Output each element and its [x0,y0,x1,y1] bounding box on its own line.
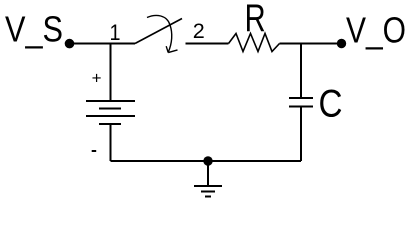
wire switch terminal 2 to resistor [186,43,229,45]
battery plate long top [86,100,135,102]
ground junction dot [203,156,212,165]
svg-text:2: 2 [193,20,205,43]
wire capacitor to bottom rail [300,107,302,162]
battery plate long [86,115,135,117]
ground bar middle [201,191,215,193]
svg-text:1: 1 [110,20,121,45]
capacitor C bottom plate [289,106,313,108]
resistor R zigzag [229,34,280,52]
svg-text:C: C [319,82,343,125]
wire from V_S node to switch pivot [69,43,136,45]
node V_S dot [65,39,75,49]
svg-text:V_S: V_S [5,9,63,50]
wire battery to bottom rail [110,124,112,161]
node V_O dot [337,39,346,48]
svg-text:R: R [245,0,266,40]
ground stem wire [207,161,209,186]
svg-text:V_O: V_O [346,10,406,51]
battery plate short [99,108,121,110]
ground bar long [194,185,222,187]
wire output node down to capacitor [300,44,302,99]
ground bar short [205,196,211,198]
wire resistor to output node [280,43,342,45]
wire V_S node junction down to battery [110,44,112,102]
svg-text:+: + [92,69,102,88]
battery plate short bottom [99,123,121,125]
capacitor C top plate [289,97,313,99]
switch blade (pole thrown toward position 1) [135,19,182,44]
bottom rail wire [111,160,302,162]
battery negative label - [92,150,97,152]
switch throw direction arrow [147,15,172,52]
